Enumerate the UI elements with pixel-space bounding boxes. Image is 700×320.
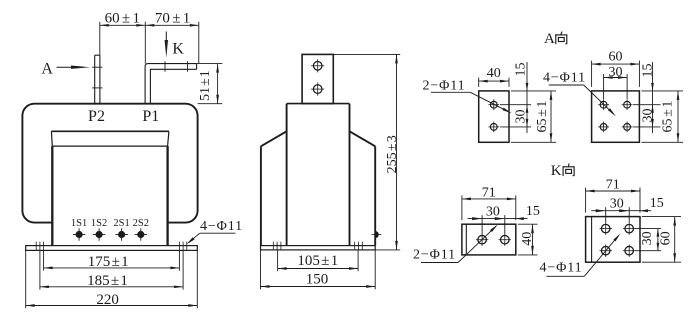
svg-text:15: 15 [640, 64, 655, 78]
svg-text:K: K [551, 163, 562, 179]
svg-text:40: 40 [520, 232, 535, 246]
svg-text:150: 150 [306, 271, 329, 287]
svg-text:71: 71 [482, 186, 496, 201]
svg-text:30: 30 [640, 231, 655, 245]
svg-text:71: 71 [606, 177, 620, 192]
svg-text:1S2: 1S2 [91, 218, 107, 229]
svg-text:30: 30 [609, 65, 623, 80]
svg-text:2S2: 2S2 [133, 218, 149, 229]
svg-text:30: 30 [610, 196, 624, 211]
svg-text:255±3: 255±3 [385, 135, 400, 173]
svg-text:A: A [544, 31, 555, 47]
svg-text:185±1: 185±1 [87, 273, 128, 289]
svg-text:2−Φ11: 2−Φ11 [413, 247, 456, 262]
svg-text:105±1: 105±1 [297, 253, 338, 269]
svg-text:15: 15 [650, 196, 664, 211]
svg-text:40: 40 [487, 66, 501, 81]
svg-text:65±1: 65±1 [535, 101, 550, 133]
svg-text:65±1: 65±1 [661, 101, 676, 133]
svg-text:4−Φ11: 4−Φ11 [200, 219, 243, 234]
svg-text:K: K [172, 40, 184, 57]
svg-text:4−Φ11: 4−Φ11 [539, 261, 582, 276]
svg-text:30: 30 [513, 110, 528, 124]
svg-text:A: A [41, 61, 53, 78]
svg-text:60±1: 60±1 [105, 10, 140, 26]
svg-text:4−Φ11: 4−Φ11 [543, 70, 586, 85]
svg-text:220: 220 [96, 292, 119, 308]
svg-text:P2: P2 [88, 108, 105, 125]
svg-text:30: 30 [486, 204, 500, 219]
svg-text:60: 60 [609, 49, 623, 64]
svg-text:15: 15 [513, 63, 528, 77]
svg-text:15: 15 [526, 204, 540, 219]
svg-text:2S1: 2S1 [113, 218, 129, 229]
svg-text:1S1: 1S1 [71, 218, 87, 229]
svg-text:60: 60 [659, 231, 674, 245]
svg-text:30: 30 [640, 109, 655, 123]
svg-text:P1: P1 [142, 108, 159, 125]
svg-text:2−Φ11: 2−Φ11 [422, 78, 465, 93]
svg-text:70±1: 70±1 [155, 10, 190, 26]
svg-text:51±1: 51±1 [198, 70, 213, 101]
svg-text:175±1: 175±1 [88, 254, 129, 270]
